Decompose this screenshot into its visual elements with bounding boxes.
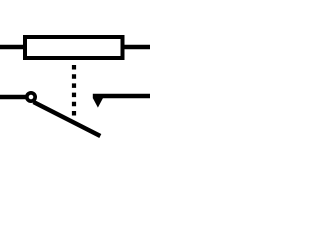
fixed contact (filled triangle) [93, 98, 103, 108]
wire (right lead of switch contact) [93, 94, 150, 99]
wire (right lead of relay coil) [123, 45, 151, 49]
wire (left lead of relay coil) [0, 45, 25, 49]
mechanical link (dashed actuation line from coil to contact arm) [72, 65, 76, 116]
relay coil K1 (rectangle body) [25, 37, 123, 58]
wire (left lead of switch contact) [0, 95, 26, 99]
switch arm (movable contact blade, open position) [34, 102, 101, 136]
switch pivot (open circle terminal) [27, 93, 35, 101]
